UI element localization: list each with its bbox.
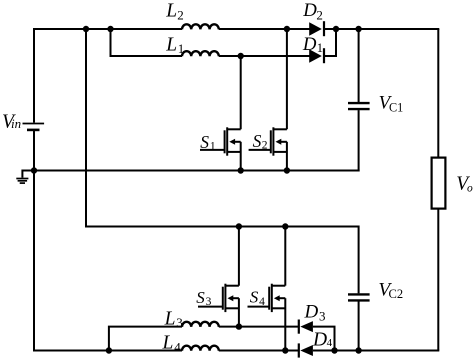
svg-text:D: D xyxy=(312,329,327,350)
svg-text:D: D xyxy=(304,302,319,323)
wire: top bus right segment (D2 cathode to output corner) xyxy=(325,28,439,30)
node: junction S1 drain on L1 wire xyxy=(238,53,244,59)
transistor S2 xyxy=(249,29,287,171)
node: junction input split on top bus xyxy=(83,26,89,32)
wire: battery negative drop (left bus) xyxy=(33,131,35,352)
capacitor C1 xyxy=(348,103,370,109)
wire: L3 branch riser xyxy=(109,327,182,352)
resistor load Vo xyxy=(432,158,446,209)
label D4 xyxy=(312,329,333,350)
label L1 xyxy=(165,34,184,56)
svg-text:4: 4 xyxy=(259,296,265,308)
wire: C2 top drop xyxy=(358,226,360,294)
svg-text:1: 1 xyxy=(210,141,216,153)
label S3 xyxy=(196,288,211,308)
inductor L3 xyxy=(182,322,219,327)
wire: output riser top (top bus to load) xyxy=(437,29,439,158)
label L3 xyxy=(164,308,183,330)
svg-text:in: in xyxy=(11,116,21,131)
svg-text:S: S xyxy=(250,288,259,307)
ground xyxy=(16,179,28,184)
svg-text:L: L xyxy=(162,333,174,354)
node: junction C2 bottom on output rail xyxy=(355,347,361,353)
label D1 xyxy=(302,34,323,55)
label S4 xyxy=(250,288,265,308)
label V_C2 xyxy=(378,279,403,300)
node: junction S4 drain on lower input rail xyxy=(282,223,288,229)
label V_o xyxy=(456,174,473,195)
wire: C1 bottom riser xyxy=(358,110,360,171)
svg-text:2: 2 xyxy=(177,7,184,22)
wire: C1 top riser xyxy=(358,29,360,102)
svg-text:C1: C1 xyxy=(389,101,403,115)
node: junction C1 top on top bus xyxy=(355,26,361,32)
node: junction S3 source on L3 wire xyxy=(236,323,242,329)
wire: battery positive riser xyxy=(33,28,35,123)
diode D1 xyxy=(309,48,324,63)
wire: source return rail of top half xyxy=(34,170,360,172)
transistor S3 xyxy=(198,227,239,327)
svg-text:1: 1 xyxy=(317,41,323,55)
wire: lower input feed drop from top bus xyxy=(86,29,359,227)
node: junction L1 tap on top bus xyxy=(107,26,113,32)
svg-text:4: 4 xyxy=(327,337,333,349)
wire: bottom output rail (D4 anode to output corner) xyxy=(313,350,439,352)
label L4 xyxy=(162,333,182,355)
capacitor C2 xyxy=(348,294,370,300)
wire: L1 branch riser and left segment xyxy=(111,29,183,56)
wire: top bus left segment xyxy=(33,28,182,30)
transistor S4 xyxy=(248,227,286,351)
node: junction S2 drain on top bus xyxy=(284,26,290,32)
label D2 xyxy=(302,0,323,22)
wire: L3 node to D3 cathode xyxy=(219,326,299,328)
node: junction D1 cathode merge on top bus xyxy=(333,26,339,32)
node: junction battery negative / ground xyxy=(31,167,37,173)
label V_in xyxy=(2,111,21,132)
battery V_in positive plate xyxy=(23,123,45,125)
label L2 xyxy=(165,1,183,23)
svg-text:D: D xyxy=(302,0,317,21)
svg-text:C2: C2 xyxy=(389,287,404,301)
node: junction D3 anode on output rail xyxy=(331,347,337,353)
svg-text:3: 3 xyxy=(206,296,212,308)
label D3 xyxy=(304,302,326,324)
wire: top bus middle segment (L2 to D2 anode) xyxy=(219,28,310,30)
inductor L4 xyxy=(182,346,219,351)
svg-text:1: 1 xyxy=(178,41,185,56)
wire: bottom rail left segment (battery negative return) xyxy=(33,350,182,352)
svg-text:4: 4 xyxy=(174,339,181,354)
label S1 xyxy=(200,132,216,153)
svg-text:2: 2 xyxy=(262,139,268,151)
wire: L1 node to D1 anode xyxy=(219,55,310,57)
svg-text:S: S xyxy=(253,131,262,151)
svg-text:S: S xyxy=(196,288,205,307)
node: junction S2 source on return rail xyxy=(284,167,290,173)
diode D3 xyxy=(299,320,313,334)
battery V_in negative plate xyxy=(27,129,40,132)
svg-text:o: o xyxy=(467,182,473,194)
transistor S1 xyxy=(200,56,241,171)
node: junction L3 tap on bottom rail xyxy=(106,347,112,353)
inductor L2 xyxy=(182,24,219,29)
label S2 xyxy=(253,131,268,151)
wire: D1 cathode riser to top bus xyxy=(325,29,336,56)
wire: ground stub xyxy=(22,171,33,178)
svg-text:L: L xyxy=(165,1,177,22)
node: junction S1 source on return rail xyxy=(238,167,244,173)
svg-text:D: D xyxy=(302,34,317,55)
svg-text:S: S xyxy=(200,132,209,152)
svg-text:3: 3 xyxy=(176,315,183,330)
label V_C1 xyxy=(379,93,404,115)
node: junction S3 drain on lower input rail xyxy=(236,223,242,229)
svg-text:2: 2 xyxy=(316,8,323,23)
diode D2 xyxy=(309,21,324,36)
wire: C2 bottom drop xyxy=(358,301,360,350)
wire: bottom rail middle segment (L4 to D4 cathode) xyxy=(219,350,299,352)
wire: D3 anode drop to output return rail xyxy=(313,327,335,351)
node: junction S4 source on bottom rail xyxy=(282,347,288,353)
svg-text:L: L xyxy=(165,34,177,55)
diode D4 xyxy=(299,343,313,357)
svg-text:L: L xyxy=(164,308,176,329)
wire: output riser bottom (load to bottom rail) xyxy=(437,209,439,351)
svg-text:3: 3 xyxy=(319,308,326,323)
inductor L1 xyxy=(182,51,219,56)
